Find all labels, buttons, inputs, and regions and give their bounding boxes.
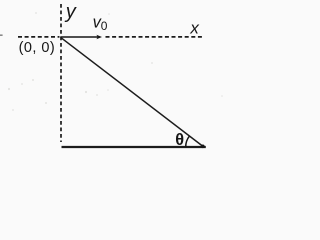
x-axis left dashed segment [18,36,60,38]
angle arc [186,136,190,147]
y-axis (vertical dashed line) [60,4,62,142]
svg-text:x: x [189,19,199,38]
svg-text:(0, 0): (0, 0) [19,40,56,56]
ground line [62,146,206,148]
svg-text:θ: θ [175,131,184,149]
initial velocity vector v0 (solid arrow) [61,36,100,38]
svg-text:0: 0 [101,19,108,33]
faint dash at left edge [0,34,3,36]
x-axis right dashed segment [106,36,204,38]
vertex blob where lines meet [201,145,205,149]
svg-text:y: y [64,1,77,23]
projectile path (diagonal line) [61,37,204,147]
